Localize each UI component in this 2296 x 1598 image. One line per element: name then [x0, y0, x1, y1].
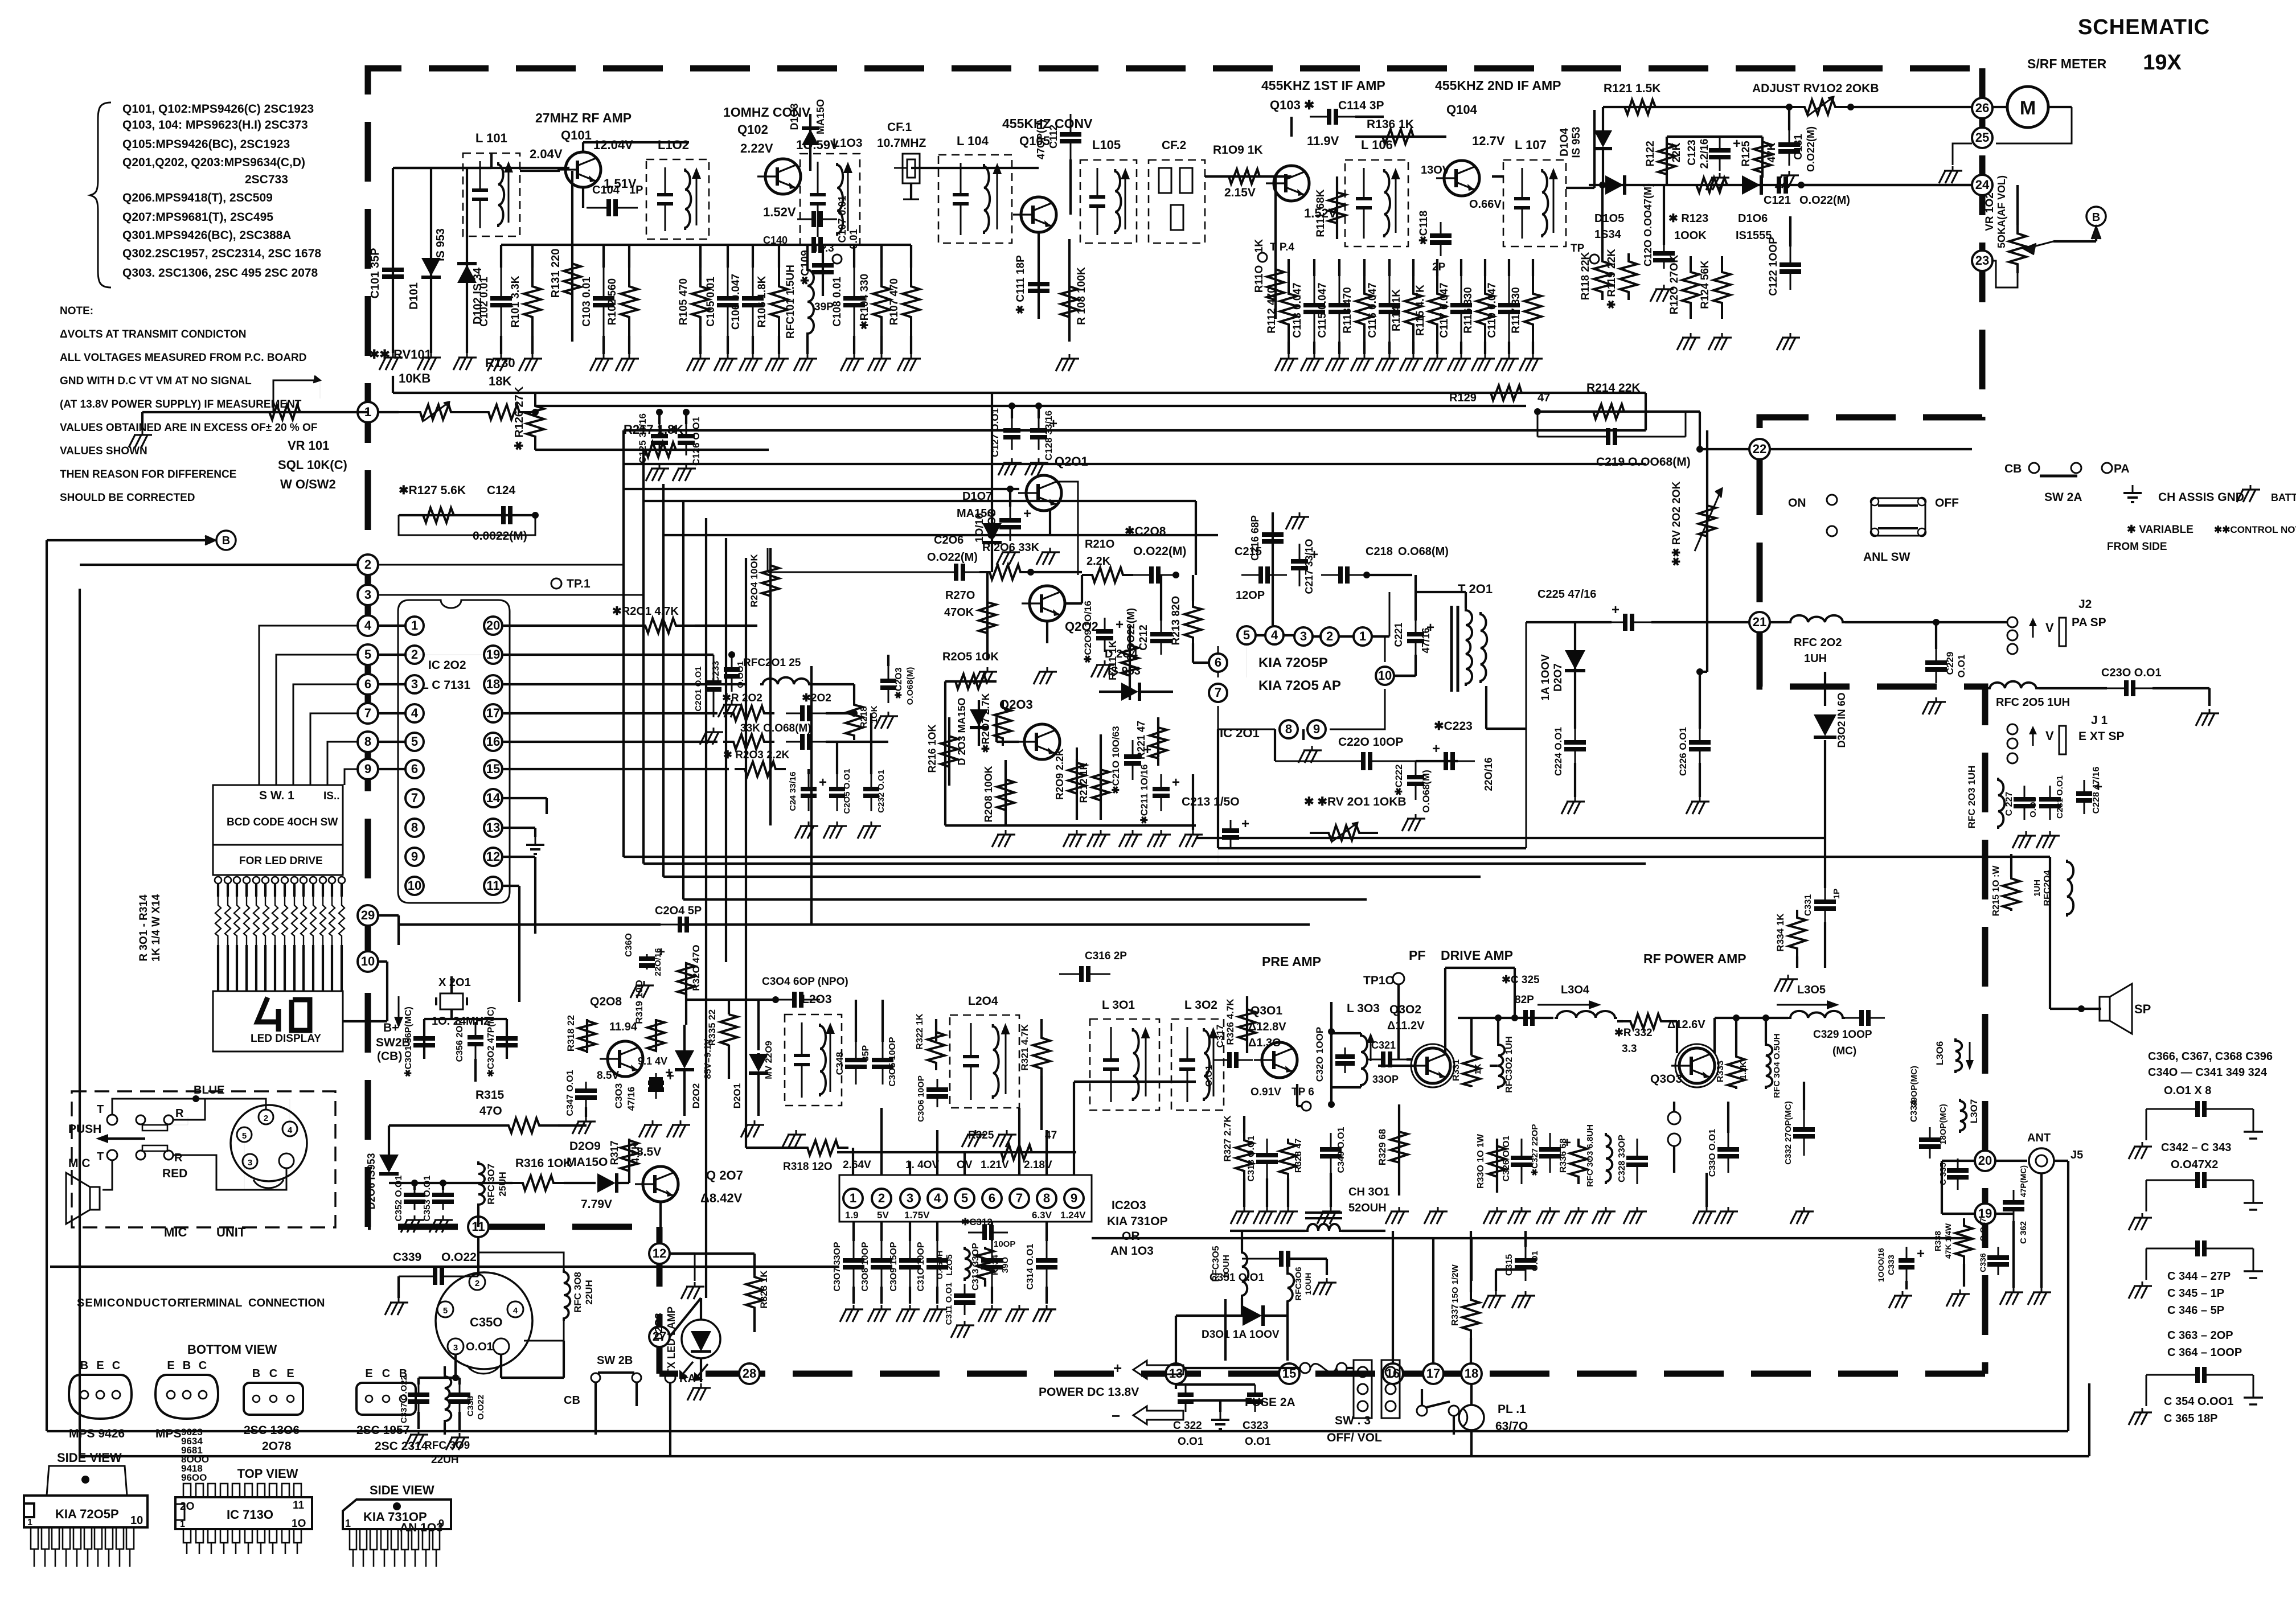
resistor R205 10K: [942, 651, 999, 689]
svg-text:47K 1/4W: 47K 1/4W: [1944, 1223, 1953, 1259]
wire L101 feed: [395, 153, 491, 168]
svg-text:1: 1: [27, 1518, 32, 1527]
svg-text:C351 O.O1: C351 O.O1: [1209, 1272, 1265, 1284]
capacitor C322 0.01: [1173, 1385, 1204, 1448]
speaker SP: [2050, 857, 2151, 1034]
svg-text:7: 7: [411, 791, 418, 805]
svg-text:C218: C218: [1366, 545, 1393, 558]
svg-text:2P: 2P: [1432, 261, 1446, 273]
svg-text:OFF: OFF: [1935, 496, 1959, 510]
svg-text:C332 27OP(MC): C332 27OP(MC): [1783, 1101, 1793, 1165]
svg-text:RA: RA: [679, 1373, 696, 1385]
svg-text:Q201,Q202, Q203:MPS9634(C,D): Q201,Q202, Q203:MPS9634(C,D): [122, 156, 305, 169]
svg-text:R122: R122: [1645, 141, 1657, 166]
svg-text:14: 14: [486, 791, 501, 805]
ground D101: [417, 353, 441, 370]
resistor R136 1K: [1355, 118, 1446, 144]
svg-text:455KHZ 2ND IF AMP: 455KHZ 2ND IF AMP: [1435, 78, 1561, 93]
resistor R213 820: [1170, 575, 1218, 663]
svg-text:✱R2O1 4.7K: ✱R2O1 4.7K: [612, 605, 679, 618]
svg-text:3: 3: [453, 1343, 458, 1353]
svg-text:1UH: 1UH: [1804, 652, 1827, 665]
capacitor C231 0.01: [2036, 775, 2065, 848]
capacitor C111 18P: [1015, 233, 1049, 319]
svg-text:+: +: [1172, 775, 1180, 790]
capacitor C125 33/16: [637, 409, 678, 481]
IC203 pin 5: [955, 1189, 974, 1208]
wire node22: [1686, 412, 1972, 453]
transistor Q203: [999, 697, 1060, 759]
svg-text:RFC3O6: RFC3O6: [1294, 1267, 1303, 1300]
svg-text:R321 4.7K: R321 4.7K: [1019, 1024, 1030, 1071]
svg-text:4: 4: [411, 706, 419, 720]
svg-text:+: +: [1241, 816, 1249, 832]
svg-text:+: +: [1113, 1359, 1122, 1377]
svg-text:O.O1 X 8: O.O1 X 8: [2164, 1084, 2211, 1097]
svg-text:Q3O3: Q3O3: [1650, 1073, 1682, 1086]
IC203 pin 3: [900, 1189, 920, 1208]
svg-text:C3O6 10OP: C3O6 10OP: [916, 1075, 926, 1122]
package 2SC1957 bottom view: [356, 1367, 428, 1453]
coil RFC204 1UH: [2032, 860, 2073, 917]
svg-text:CH 3O1: CH 3O1: [1348, 1186, 1389, 1198]
svg-text:FROM SIDE: FROM SIDE: [2107, 541, 2167, 553]
capacitor C118 2P: [1418, 211, 1452, 273]
svg-text:18: 18: [486, 677, 500, 691]
resistor R335 22: [707, 1000, 737, 1079]
svg-text:47/16: 47/16: [626, 1087, 637, 1111]
diode D105 1S34: [1589, 175, 1972, 241]
node 21: [1749, 612, 1770, 632]
IC IC202 outline: [398, 600, 510, 903]
svg-text:TX LED LAMP: TX LED LAMP: [666, 1307, 677, 1375]
svg-text:47: 47: [1537, 392, 1550, 404]
capacitor C348 35P: [834, 1000, 871, 1084]
svg-text:✱C21O 10O/63: ✱C21O 10O/63: [1110, 726, 1121, 794]
IC203 pin 7: [1010, 1189, 1029, 1208]
IC201 pin 7: [1209, 684, 1227, 702]
capacitor C229 0.01: [1922, 619, 1967, 714]
svg-text:2SC 1957: 2SC 1957: [356, 1424, 409, 1437]
svg-text:C126 O.O1: C126 O.O1: [691, 417, 702, 466]
svg-text:22O/16: 22O/16: [653, 948, 663, 976]
capacitor C205 0.01: [823, 742, 852, 839]
wire mid stairs2: [1218, 622, 1526, 864]
choke CH301 520UH: [1305, 1186, 1389, 1231]
resistor R319 100: [634, 980, 665, 1051]
svg-text:✱C211 1O/16: ✱C211 1O/16: [1139, 765, 1150, 824]
svg-text:1: 1: [345, 1518, 351, 1529]
wire to node 1: [378, 411, 399, 413]
svg-text:C224 O.O1: C224 O.O1: [1553, 727, 1564, 776]
svg-text:B: B: [252, 1367, 260, 1380]
capacitor C218 0.068(M): [1321, 545, 1449, 584]
capacitor C220 100P: [1275, 729, 1458, 770]
resistor R327 2.7K: [1222, 1115, 1254, 1224]
svg-text:1: 1: [180, 1519, 185, 1529]
svg-text:47K: 47K: [1766, 142, 1778, 162]
svg-text:E: E: [167, 1359, 174, 1372]
resistor R110 1K: [1253, 176, 1284, 319]
wire top verticals: [991, 393, 993, 495]
node 29: [358, 905, 378, 926]
package MPS9426 bottom view: [69, 1359, 132, 1440]
tuned circuit L106: [1345, 138, 1408, 247]
svg-text:R324: R324: [990, 1254, 1000, 1275]
svg-text:SP: SP: [2134, 1002, 2151, 1016]
svg-text:3.3: 3.3: [1622, 1043, 1637, 1055]
component fence stage1: [478, 245, 921, 371]
svg-text:GND WITH D.C VT VM AT NO: GND WITH D.C VT VM AT NO SIGNAL: [60, 375, 252, 387]
svg-text:39O: 39O: [1001, 1256, 1010, 1273]
resistor R212 1K: [1078, 734, 1110, 847]
cap C? polarized: [649, 1065, 673, 1090]
svg-text:L3O7: L3O7: [1969, 1099, 1979, 1124]
crystal CF1 10.7MHZ: [877, 121, 926, 199]
svg-text:5: 5: [961, 1191, 968, 1205]
capacitor C140 0.01: [763, 229, 859, 253]
wire pin12 out: [503, 857, 535, 934]
svg-text:C219 O.OO68(M): C219 O.OO68(M): [1596, 455, 1691, 469]
svg-text:T 2O1: T 2O1: [1458, 582, 1493, 596]
svg-text:Q3O2: Q3O2: [1389, 1003, 1421, 1016]
cap stack C354: [2129, 1329, 2263, 1425]
svg-text:C212: C212: [1138, 625, 1150, 650]
capacitor C104 1P: [583, 184, 643, 216]
coil L303: [1331, 1002, 1380, 1087]
svg-text:C215: C215: [1235, 545, 1262, 558]
diode D107 MA150: [957, 490, 1002, 572]
capacitor C227 0.01: [2004, 786, 2038, 848]
resistor R130 18K: [473, 356, 535, 420]
svg-text:C226 O.O1: C226 O.O1: [1678, 727, 1688, 776]
resistor R109 1K: [1205, 143, 1291, 199]
svg-text:T P.4: T P.4: [1270, 241, 1294, 253]
capacitor C334 390P: [1909, 1066, 1941, 1159]
svg-text:✱R2O7 2.7K: ✱R2O7 2.7K: [980, 693, 991, 753]
svg-text:C102 0.01: C102 0.01: [478, 277, 490, 327]
capacitor C335 180P: [1938, 1104, 1969, 1190]
svg-text:18: 18: [1465, 1366, 1478, 1381]
svg-text:O.91V: O.91V: [1250, 1086, 1281, 1098]
node 23: [1972, 250, 1992, 271]
ground C101: [379, 353, 403, 370]
svg-text:15O 1/2W: 15O 1/2W: [1450, 1264, 1460, 1303]
svg-text:RFC 2O2: RFC 2O2: [1794, 636, 1842, 649]
note text block: [60, 305, 317, 504]
svg-text:L2O3: L2O3: [802, 993, 832, 1006]
svg-text:R102 560: R102 560: [606, 278, 618, 325]
wires PA chain: [1378, 1065, 1498, 1067]
svg-text:11: 11: [486, 878, 499, 893]
tuned circuit L101: [463, 131, 520, 236]
svg-text:2SC 13O6: 2SC 13O6: [244, 1424, 300, 1437]
wires nodes to SW1: [0, 0, 1, 1]
svg-text:C231 O.O1: C231 O.O1: [2055, 775, 2065, 819]
svg-text:V: V: [2045, 621, 2054, 635]
label PUSH arrow: [68, 1123, 145, 1143]
svg-text:Q301.MPS9426(BC), 2SC388A: Q301.MPS9426(BC), 2SC388A: [122, 229, 291, 242]
svg-text:R12O 27OK: R12O 27OK: [1668, 254, 1680, 314]
resistor R211 1K: [1107, 626, 1138, 700]
svg-text:2.15V: 2.15V: [1224, 186, 1256, 199]
svg-text:C348: C348: [834, 1052, 845, 1075]
svg-text:R117 330: R117 330: [1510, 287, 1522, 333]
svg-text:C 365 18P: C 365 18P: [2164, 1412, 2218, 1425]
wire top rail right: [1492, 110, 1594, 188]
svg-text:IS 953: IS 953: [434, 228, 447, 261]
svg-text:Q103, 104: MPS9623(H.I) 2SC: Q103, 104: MPS9623(H.I) 2SC373: [122, 118, 308, 132]
svg-text:C35O: C35O: [470, 1315, 502, 1329]
svg-text:2.2K: 2.2K: [1086, 555, 1111, 568]
tuned circuit L103: [800, 137, 863, 245]
capacitor C209 10/16: [1083, 601, 1124, 677]
node 11: [468, 1217, 489, 1237]
diode D301 1A 100V: [1202, 1299, 1288, 1361]
resistor R318b 120: [746, 1140, 848, 1173]
svg-text:2.2/16: 2.2/16: [1699, 139, 1711, 169]
capacitor C304 60P: [686, 976, 848, 1008]
svg-text:S W. 1: S W. 1: [259, 789, 294, 802]
svg-text:C229: C229: [1945, 652, 1955, 675]
tuned circuit L302: [1171, 999, 1224, 1110]
tuned circuit L203: [782, 993, 842, 1147]
svg-text:35P: 35P: [861, 1045, 871, 1061]
resistor R336 68: [1559, 1139, 1588, 1224]
svg-text:C315: C315: [1504, 1254, 1514, 1276]
svg-text:R213 82O: R213 82O: [1170, 596, 1182, 646]
resistor R320 470: [678, 944, 702, 1025]
resistor R337 150 1/2W: [1450, 1231, 1479, 1363]
svg-text:11.9V: 11.9V: [1307, 134, 1339, 148]
svg-text:O.O1: O.O1: [2028, 797, 2038, 818]
coil RFC205 1UH: [1987, 681, 2107, 709]
capacitor C331 1P: [1803, 843, 1842, 968]
svg-text:SW . 3: SW . 3: [1335, 1414, 1371, 1427]
capacitor C217 33/10: [1286, 512, 1318, 594]
svg-text:26: 26: [1975, 101, 1989, 115]
svg-text:R318 12O: R318 12O: [783, 1161, 833, 1173]
svg-text:L3O4: L3O4: [1561, 984, 1590, 996]
svg-text:O.O22: O.O22: [476, 1395, 486, 1420]
svg-text:1: 1: [850, 1191, 856, 1205]
svg-text:O.O47: O.O47: [1978, 1218, 1987, 1241]
svg-text:C140: C140: [763, 235, 788, 246]
label POWER DC: [1039, 1386, 1139, 1399]
IC201 pin 2: [1321, 627, 1339, 646]
transistor Q302 drive amp: [1387, 948, 1513, 1087]
svg-text:C2̷4 33/16: C2̷4 33/16: [788, 771, 798, 811]
svg-text:1.24V: 1.24V: [1060, 1210, 1086, 1221]
label TP10: [1363, 973, 1404, 1059]
capacitor C323 0.01: [1186, 1385, 1271, 1448]
node 3: [358, 585, 378, 605]
svg-text:R129: R129: [1449, 392, 1477, 404]
svg-text:1OOO/16: 1OOO/16: [1876, 1248, 1885, 1282]
svg-text:52OUH: 52OUH: [1348, 1202, 1387, 1214]
svg-text:MIC: MIC: [164, 1225, 187, 1239]
wire long bus y1505: [624, 856, 2050, 858]
svg-text:13: 13: [486, 820, 500, 835]
capacitor C232 0.01: [858, 713, 886, 839]
wire Q101 base: [520, 170, 560, 172]
connector block 1: [1354, 1360, 1372, 1418]
MIC switch T/R upper: [97, 1103, 184, 1131]
svg-text:✱ R119 22K: ✱ R119 22K: [1606, 249, 1618, 309]
svg-text:R107 470: R107 470: [888, 278, 900, 325]
coil RFC305 10UH: [1211, 1231, 1248, 1316]
capacitor C302 47P(MC): [486, 1007, 518, 1077]
capacitor C303 47/16: [613, 1069, 674, 1137]
svg-text:Q 2O7: Q 2O7: [706, 1168, 743, 1182]
MIC wires: [102, 1095, 290, 1190]
svg-text:L 107: L 107: [1515, 138, 1547, 152]
resistor R322 1K: [915, 1013, 945, 1070]
testpoint TP3: [813, 243, 842, 264]
svg-text:E: E: [365, 1367, 372, 1380]
svg-text:Q104: Q104: [1446, 102, 1478, 117]
svg-text:12: 12: [486, 849, 500, 864]
svg-text:O.O68(M): O.O68(M): [1398, 545, 1449, 558]
svg-text:R333: R333: [1716, 1061, 1725, 1082]
svg-text:R2O9 2.2K: R2O9 2.2K: [1054, 749, 1065, 800]
svg-text:R125: R125: [1740, 141, 1752, 167]
svg-text:C 335: C 335: [1938, 1162, 1948, 1185]
IC201 pin 5: [1237, 626, 1256, 644]
svg-text:C329 1OOP: C329 1OOP: [1813, 1029, 1872, 1041]
svg-text:18K: 18K: [489, 374, 511, 388]
svg-text:✱ VARIABLE: ✱ VARIABLE: [2127, 524, 2193, 536]
svg-text:C316 2P: C316 2P: [1085, 950, 1127, 962]
svg-text:SEMICONDUCTOR: SEMICONDUCTOR: [77, 1297, 186, 1309]
svg-text:D2O7: D2O7: [1552, 663, 1564, 692]
svg-text:1P: 1P: [629, 184, 643, 196]
wire rv202 down: [1700, 671, 1707, 673]
svg-text:1S34: 1S34: [1594, 228, 1622, 241]
svg-text:C2O4 5P: C2O4 5P: [655, 905, 702, 917]
svg-text:(CB): (CB): [377, 1050, 402, 1063]
svg-text:C 364 – 1OOP: C 364 – 1OOP: [2167, 1346, 2242, 1359]
capacitor C337 0.022: [399, 1375, 429, 1447]
wire vert v6: [725, 538, 727, 962]
svg-text:ANL SW: ANL SW: [1863, 551, 1910, 564]
svg-text:C131: C131: [1793, 134, 1805, 160]
ground mid fence: [1179, 774, 1203, 847]
resistor R328 47: [1274, 1139, 1303, 1224]
svg-text:✱C223: ✱C223: [1434, 720, 1473, 733]
resistor R210 2.2K: [1082, 538, 1133, 582]
jack J1 EXT SP: [2007, 714, 2125, 763]
svg-text:✱R127 5.6K: ✱R127 5.6K: [399, 484, 466, 497]
capacitor C124 0.0022(M): [399, 484, 535, 543]
svg-text:C12O O.OO47(M): C12O O.OO47(M): [1642, 183, 1654, 266]
svg-text:D3O1 1A 1OOV: D3O1 1A 1OOV: [1202, 1329, 1280, 1341]
svg-text:D101: D101: [408, 282, 420, 310]
svg-text:10: 10: [408, 878, 421, 893]
coil RFC201 25: [503, 657, 854, 684]
coil RFC308 22UH: [478, 1237, 594, 1341]
svg-text:✱ C111 18P: ✱ C111 18P: [1015, 255, 1027, 314]
capacitor C121 0.022(M): [1764, 176, 1972, 207]
svg-text:C 362: C 362: [2019, 1221, 2028, 1244]
svg-text:11: 11: [293, 1500, 305, 1511]
capacitor C109 39P: [799, 245, 834, 313]
svg-text:R336 68: R336 68: [1559, 1139, 1568, 1173]
svg-text:✱R 2O2: ✱R 2O2: [722, 692, 762, 704]
svg-text:8: 8: [411, 820, 418, 835]
coil L306: [1934, 1038, 1974, 1073]
svg-text:PA SP: PA SP: [2072, 616, 2106, 629]
svg-text:1OOK: 1OOK: [1674, 229, 1707, 242]
svg-text:C318 O.O1: C318 O.O1: [1247, 1135, 1256, 1181]
resistor R204 100K: [749, 548, 779, 632]
svg-text:IS 953: IS 953: [1571, 127, 1582, 158]
svg-text:✱C222: ✱C222: [1393, 765, 1404, 796]
svg-text:17: 17: [1426, 1366, 1440, 1381]
wire node10 to LED: [343, 962, 387, 1021]
coil RFC202 1UH: [1770, 615, 1942, 665]
wire sw2b: [596, 1382, 670, 1457]
svg-text:22: 22: [1753, 442, 1766, 456]
capacitor C203 0.068: [875, 655, 915, 729]
resistor R215 10 1/2W: [1991, 854, 2020, 916]
svg-text:R337: R337: [1450, 1304, 1460, 1326]
svg-text:D1O5: D1O5: [1594, 212, 1624, 225]
IC201 pin 4: [1265, 626, 1284, 644]
resistor R208 100K: [983, 760, 1015, 847]
svg-text:AN 1O3: AN 1O3: [400, 1521, 443, 1534]
wires C350 bottom: [419, 1341, 564, 1385]
svg-text:39OP(MC): 39OP(MC): [1909, 1066, 1919, 1107]
svg-text:1K: 1K: [1253, 239, 1265, 253]
IC IC203 box: [839, 1175, 1092, 1222]
svg-text:ON: ON: [1788, 496, 1806, 510]
IC203 pin 6: [982, 1189, 1002, 1208]
resistor R318 22: [565, 1015, 596, 1053]
capacitor C222 0.068(M): [1393, 761, 1432, 831]
ground pin18 area: [503, 712, 512, 714]
capacitor C317 0.01: [1204, 1025, 1253, 1087]
IC201 pin 6: [1209, 654, 1227, 672]
svg-text:R2O8 10OK: R2O8 10OK: [983, 766, 994, 822]
svg-text:1.21V: 1.21V: [981, 1159, 1009, 1171]
svg-text:C 346 – 5P: C 346 – 5P: [2167, 1304, 2224, 1317]
svg-text:RFC 3O3 6.8UH: RFC 3O3 6.8UH: [1585, 1124, 1595, 1187]
svg-text:Q3O1: Q3O1: [1250, 1004, 1282, 1017]
svg-text:L3O5: L3O5: [1797, 984, 1826, 996]
switch SW3: [1327, 1389, 1459, 1444]
svg-text:R322 1K: R322 1K: [915, 1013, 925, 1050]
transistor Q201: [624, 454, 1088, 511]
svg-text:29: 29: [361, 908, 375, 922]
svg-text:22K: 22K: [1671, 142, 1683, 162]
package KIA7310P side view: [343, 1483, 451, 1567]
svg-text:1O: 1O: [292, 1518, 306, 1530]
svg-text:IC 2O2: IC 2O2: [428, 659, 466, 672]
wire top-left rail: [393, 168, 569, 353]
svg-text:C105 0.01: C105 0.01: [705, 277, 717, 327]
svg-text:C314 O.O1: C314 O.O1: [1026, 1243, 1035, 1289]
svg-text:R328 47: R328 47: [1294, 1139, 1303, 1173]
svg-text:MPS: MPS: [155, 1427, 182, 1440]
svg-text:2: 2: [364, 557, 371, 572]
wire t201 sec: [1486, 686, 1526, 729]
svg-text:C232 O.O1: C232 O.O1: [876, 770, 886, 813]
svg-text:PF: PF: [1409, 948, 1425, 963]
capacitor C221 47/16: [1393, 575, 1434, 655]
svg-text:IN 6O: IN 6O: [1836, 692, 1847, 719]
resistor R329 68: [1377, 1104, 1408, 1196]
